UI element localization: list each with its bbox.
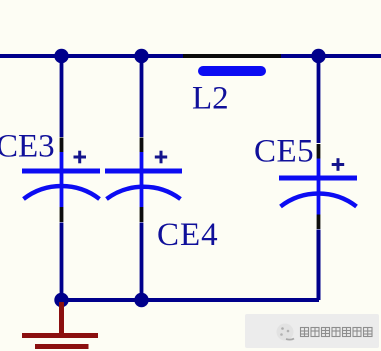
wire CE4 top lead [140,56,144,137]
junction top node 3 [311,49,325,63]
svg-text:CE3: CE3 [0,129,55,165]
svg-text:CE4: CE4 [157,217,219,253]
wire top horizontal net [0,54,381,58]
junction bottom node 1 [54,293,68,307]
capacitor CE4 [105,138,219,254]
inductor L2 [183,56,281,117]
wire CE4 bottom lead [140,223,144,301]
watermark logo [277,324,295,341]
svg-text:L2: L2 [192,81,229,117]
capacitor CE3 [0,129,100,223]
wire CE5 top lead [317,56,321,143]
wire CE3 top lead [60,56,64,137]
junction bottom node 2 [134,293,148,307]
wire bottom horizontal net [60,298,320,302]
wire CE5 bottom lead [317,230,321,301]
junction top node 2 [134,49,148,63]
junction top node 1 [54,49,68,63]
watermark box [245,314,379,348]
capacitor CE5 [254,134,357,230]
svg-text:CE5: CE5 [254,134,314,170]
watermark text (CJK placeholder glyphs) [301,328,373,337]
wire CE3 bottom lead [60,223,64,301]
ground [22,302,98,347]
